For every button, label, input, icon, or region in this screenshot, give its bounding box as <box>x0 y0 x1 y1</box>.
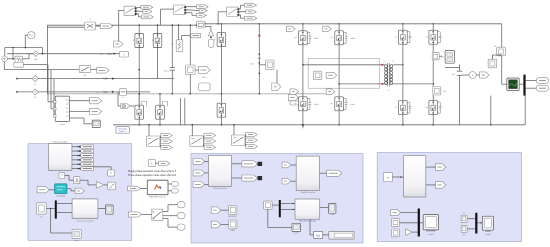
goto tag sSel <box>159 161 170 166</box>
snubber loop Q4 <box>142 101 147 106</box>
wire green to bus <box>519 83 523 85</box>
wire mux out2 <box>69 110 89 112</box>
wire G2 feed <box>218 11 227 13</box>
rounded out mf1 <box>171 182 178 187</box>
goto tag M0a <box>161 133 173 137</box>
wires G1 <box>185 6 196 8</box>
wires G0 <box>137 6 141 9</box>
IGBT leg Q13 <box>399 101 408 115</box>
svg-text:Discrete: Discrete <box>119 128 128 131</box>
subsystem PWM A <box>209 155 232 186</box>
subsystem PWM B <box>296 156 319 190</box>
wire Q6 bottom <box>220 117 222 125</box>
MOSFET Q3 <box>217 33 226 47</box>
wire phase A row <box>7 53 129 55</box>
wire one bus <box>272 204 279 206</box>
wire sel fu <box>309 219 311 235</box>
svg-text:MOSFETs: MOSFETs <box>228 216 237 218</box>
MOSFET Q1 <box>135 34 144 48</box>
wire phase C row <box>16 78 174 80</box>
goto tag lower right <box>288 94 298 100</box>
wire timer t3 <box>72 154 79 156</box>
svg-text:meas: meas <box>60 124 65 126</box>
scope sel out <box>329 204 336 214</box>
scope SC1 <box>92 120 100 127</box>
wire bridge mid left2 <box>338 45 340 97</box>
PLL block teal <box>55 184 68 194</box>
capacitor Cdc2 <box>457 70 463 72</box>
wire m4 link <box>491 55 493 59</box>
wire measR outs <box>426 166 436 168</box>
bus bar right panel 1 <box>418 209 420 237</box>
svg-text:scope2: scope2 <box>485 234 491 236</box>
wire vm1 lower <box>189 74 191 93</box>
from tag mos2 <box>211 221 221 228</box>
breaker B1 <box>79 66 91 73</box>
wire Z1 to I-meas <box>23 58 30 60</box>
block under vm1 <box>199 83 211 91</box>
wire bus sc5 <box>477 222 482 224</box>
block sat <box>108 182 116 190</box>
block meas bottom <box>72 229 81 238</box>
wire G1 feed <box>161 8 174 10</box>
wire m sub <box>392 176 403 178</box>
wire gray mid bus <box>47 93 332 95</box>
svg-text:ModeSelectionLogic: ModeSelectionLogic <box>299 220 316 223</box>
wire rate on <box>80 179 88 181</box>
gate tag Q8 <box>323 26 332 31</box>
goto tag pwmA out1 <box>242 161 257 167</box>
wire breaker to tag <box>91 68 97 70</box>
block rq1 <box>461 215 467 222</box>
rounded out mf2 <box>171 189 178 194</box>
wire tm rate <box>65 174 69 176</box>
wires sw outs <box>163 211 168 213</box>
measurement mux U1 <box>55 96 69 121</box>
svg-text:f(u): f(u) <box>316 233 320 237</box>
wire bus sc4 <box>420 222 423 224</box>
svg-text:g2: g2 <box>294 103 296 105</box>
wire Q5 top <box>159 94 161 105</box>
goto tag M1c <box>204 145 216 149</box>
wire cap2 down tag <box>276 70 278 83</box>
wire ctrl scope <box>98 208 106 210</box>
from tag rp1 <box>391 210 401 216</box>
wire La tag <box>182 35 189 37</box>
wire xfmr right bottom <box>393 83 433 85</box>
wire timer t4 <box>72 159 79 161</box>
constant P <box>37 203 47 214</box>
capacitor Cdc1 <box>170 67 175 69</box>
svg-text:M1: M1 <box>443 91 446 93</box>
svg-text:~v~: ~v~ <box>95 78 100 81</box>
wire rbridge mid2 <box>432 44 434 52</box>
block fu <box>314 231 323 238</box>
MOSFET Q2 <box>153 34 162 48</box>
wire cap2 block <box>259 64 265 66</box>
measure block M1 <box>433 87 441 96</box>
IGBT leg Q9 <box>299 97 308 111</box>
subsystem controller L <box>72 199 98 219</box>
wire rbridge bot2 <box>432 115 434 125</box>
from tag mf in <box>128 186 141 191</box>
gain triangle up <box>208 30 213 36</box>
wire wt pll <box>49 189 54 191</box>
goto tag VabcB1 <box>90 98 102 104</box>
goto tag M0c <box>161 145 173 149</box>
panel measurement scopes <box>377 153 521 242</box>
panel TimerController <box>28 144 132 241</box>
capacitor Cdc mid block <box>266 60 274 70</box>
svg-text:scope1: scope1 <box>428 234 434 236</box>
scope SC4 <box>423 215 438 230</box>
pulse switch group G1 <box>174 5 186 14</box>
svg-text:scope: scope <box>330 214 335 216</box>
current measurement diamond I1 <box>33 51 39 57</box>
svg-text:+: + <box>472 73 474 77</box>
svg-text:s: s <box>123 60 124 62</box>
from tag mos1 <box>211 207 221 214</box>
svg-text:Iabc: Iabc <box>34 59 38 61</box>
block mos1 <box>229 206 237 215</box>
svg-text:src: src <box>40 216 43 218</box>
wire timer t1 <box>72 146 79 148</box>
from tag pwmB in2 <box>282 178 291 184</box>
from tag pwmB in1 <box>282 162 291 168</box>
red mark xfmr <box>382 64 384 66</box>
wire cdc2 top <box>439 55 442 57</box>
wire bus sel <box>281 203 295 205</box>
svg-text:=VC=: =VC= <box>102 90 109 94</box>
wire Q6 top <box>220 94 222 103</box>
goto tag M0b <box>161 139 173 143</box>
demux switch group M1 <box>190 136 204 147</box>
gate tag Q7 <box>286 26 295 31</box>
svg-text:g: g <box>152 40 153 42</box>
goto tag G1b <box>199 9 207 13</box>
wire rbridge top2 <box>432 24 434 30</box>
goto tag M1b <box>204 139 216 143</box>
rounded out sw1 <box>177 202 185 208</box>
wire mos2 <box>221 224 229 226</box>
wire riser to product <box>46 27 48 94</box>
svg-text:=VA=: =VA= <box>106 52 113 56</box>
svg-text:=VB=: =VB= <box>102 77 109 81</box>
current measurement diamond I3 <box>32 89 38 95</box>
svg-text:~v~: ~v~ <box>99 53 104 56</box>
svg-text:5e-07 s.: 5e-07 s. <box>119 131 127 133</box>
from tag pwmA in3 <box>193 182 205 188</box>
wire X2 to triangle <box>205 25 211 27</box>
IGBT leg Q8 <box>335 31 344 45</box>
svg-text:tc: tc <box>463 212 465 215</box>
block rq2 <box>461 225 467 232</box>
bus bar right <box>523 75 525 96</box>
switch block sw1 <box>152 209 163 220</box>
wire sum tag <box>476 74 479 76</box>
IGBT leg Q12 <box>429 30 438 44</box>
pulse switch group G0 <box>124 6 136 15</box>
wire bridge mid left <box>302 45 304 97</box>
block K <box>108 170 115 176</box>
wire cdc2 bot <box>459 75 461 83</box>
goto tag pwmA out2 <box>242 175 257 181</box>
wire timer t5 <box>72 163 79 165</box>
svg-text:Cdc1: Cdc1 <box>163 71 169 73</box>
goto tag G1c <box>196 13 206 17</box>
powergui scope green <box>507 78 519 90</box>
svg-text:g4: g4 <box>330 103 332 105</box>
voltage source V1 <box>2 56 8 62</box>
block rp3 <box>392 229 400 237</box>
panel PWM generators <box>191 154 363 244</box>
wire far right bottom <box>524 96 526 125</box>
bus bar left panel <box>55 200 57 218</box>
wire vm1 riser <box>189 25 191 65</box>
wire rbridge top <box>402 24 404 30</box>
goto tag B1out <box>97 68 110 73</box>
sum block S1 <box>119 51 128 57</box>
svg-text:g: g <box>133 40 134 42</box>
goto tag G0b <box>143 10 152 14</box>
wire bus to product <box>47 26 84 28</box>
wire cap1 lower <box>171 70 173 94</box>
sine wave source <box>28 32 35 39</box>
svg-text:scope: scope <box>74 240 79 242</box>
goto tag M2a <box>246 132 258 136</box>
goto tag G0c <box>141 15 153 19</box>
goto tag Vdc1 <box>199 67 211 74</box>
scope SC2 <box>106 205 114 214</box>
ground arrow below bus <box>302 126 304 129</box>
svg-text:x: x <box>90 18 91 20</box>
wire to sum <box>462 74 469 76</box>
IGBT leg Q10 <box>335 97 344 111</box>
rounded out sw3 <box>177 224 185 230</box>
gain K2 <box>96 182 104 189</box>
IGBT leg Q7 <box>299 31 308 45</box>
wire pwmA outs <box>232 163 242 165</box>
current measurement diamond I2 <box>32 76 38 82</box>
measure block M2 <box>432 53 439 60</box>
wires G2 <box>238 8 240 10</box>
goto tag Vdc <box>272 83 281 91</box>
wire cap2 riser <box>258 24 260 94</box>
rounded tag out1 <box>536 78 548 84</box>
svg-text:+: + <box>123 53 125 57</box>
svg-text:MATLAB Function: MATLAB Function <box>149 195 167 198</box>
svg-text:s2: s2 <box>395 107 397 109</box>
wire pwmA in2 <box>205 172 209 174</box>
wire fu disp <box>323 234 329 236</box>
wire Q3 down <box>220 47 222 94</box>
wire xfmr bottom <box>339 83 384 85</box>
wire mux out1 <box>69 100 89 102</box>
goto tag G2a <box>245 3 257 7</box>
wire xfmr top <box>303 64 384 66</box>
demux switch group M2 <box>232 135 246 146</box>
wires M2 <box>244 135 247 139</box>
wire top bus right <box>205 23 502 25</box>
svg-text:tjm: tjm <box>462 233 465 236</box>
goto tag measR2 <box>436 182 446 189</box>
svg-text:g1: g1 <box>294 37 296 39</box>
goto tag M1a <box>204 133 216 137</box>
wires M1 <box>202 135 205 139</box>
wire timer t2 <box>72 150 79 152</box>
svg-text:Cdc: Cdc <box>452 74 456 76</box>
vertical right of Q5 <box>179 98 181 125</box>
subsystem sel <box>295 199 320 219</box>
wire Q4 bottom <box>138 119 140 125</box>
wire loop left drop <box>4 48 6 56</box>
wire Q2 down <box>157 48 159 79</box>
from tag wt <box>37 187 49 193</box>
IGBT leg Q11 <box>399 30 408 44</box>
constant sSel <box>148 160 155 167</box>
wire drop Q3 <box>220 24 222 33</box>
rounded tag out2 <box>536 85 548 91</box>
demux switch group M0 <box>147 136 161 147</box>
SM block <box>313 71 321 79</box>
wire F1 out <box>130 105 134 107</box>
measure block ht <box>120 89 127 96</box>
display block <box>329 231 354 239</box>
MOSFET Q4 <box>135 105 144 119</box>
inductor branch La <box>176 40 183 52</box>
wire M1 feed <box>191 125 193 136</box>
wire pwmB in2 <box>291 180 296 182</box>
vertical right of Q5 b <box>184 98 186 125</box>
wire right riser bottom <box>490 96 492 125</box>
wire product to tag <box>96 25 101 27</box>
wire La riser <box>178 25 180 40</box>
wire rbridge bot <box>402 115 404 125</box>
wire sine feed <box>25 34 27 36</box>
wire p bus <box>46 208 55 210</box>
wire drop Q2 <box>157 25 159 33</box>
svg-text:M2: M2 <box>441 57 444 59</box>
goto tag M2b <box>246 138 258 142</box>
block rp2 <box>392 219 400 227</box>
wires bus to controller <box>57 203 72 205</box>
wire drop Q1 <box>138 25 140 33</box>
timer out tag T4 <box>79 158 93 162</box>
scope SC5 <box>482 216 493 230</box>
bus bar right panel 2 <box>475 213 477 234</box>
wires bus to tags <box>526 80 537 82</box>
svg-text:Single-phase operation mode wh: Single-phase operation mode when sSel is… <box>128 170 177 173</box>
wire pwmA in1 <box>205 160 209 162</box>
wire bottom DC return bus <box>113 124 525 126</box>
wire timer t6 <box>72 168 79 170</box>
wire sw in <box>142 214 152 216</box>
timer out tag T6 <box>79 167 93 171</box>
tag pll out <box>75 188 84 194</box>
snubber loop Q5 <box>163 101 168 106</box>
svg-text:SinglePhaseGen: SinglePhaseGen <box>300 192 315 194</box>
wire to phase taps <box>23 64 47 66</box>
block M4 <box>488 59 497 68</box>
wire main top DC bus left <box>47 24 196 26</box>
wire pwmB in1 <box>291 164 296 166</box>
wire gain sat <box>104 184 108 186</box>
svg-text:~v~: ~v~ <box>95 91 100 94</box>
wire loop right drop <box>42 48 44 54</box>
wire source bottom <box>3 62 5 70</box>
wire neutral row <box>16 91 150 93</box>
block M3 <box>497 47 506 56</box>
wire mux out3 <box>69 117 84 119</box>
svg-text:IGBTs: IGBTs <box>230 230 235 232</box>
wire mf in <box>141 188 148 190</box>
wire tap A <box>47 65 49 102</box>
small source block <box>14 62 24 67</box>
wire bus down block <box>50 209 52 234</box>
wire Q1 down <box>138 48 140 106</box>
wires rp to bus <box>401 212 418 214</box>
goto tag M2c <box>246 144 258 148</box>
wire tap C <box>53 79 55 116</box>
measurement boundary box <box>308 58 379 88</box>
powergui block <box>116 127 130 134</box>
timer out tag T2 <box>79 149 93 153</box>
subsystem TimerController <box>49 144 72 171</box>
svg-text:ThreePhaseGen: ThreePhaseGen <box>213 188 228 190</box>
arrow into row D <box>16 91 19 93</box>
wire ssel <box>155 162 158 164</box>
wire pll out <box>67 188 71 190</box>
goto tag SM <box>326 72 337 78</box>
wires M0 <box>159 136 162 140</box>
from tag pwmA in2 <box>193 170 205 176</box>
goto tag G1a <box>196 5 208 9</box>
wire G0 feed <box>119 9 124 11</box>
goto tag G2c <box>245 16 257 20</box>
constant one <box>264 201 273 209</box>
rounded out sw2 <box>177 213 185 219</box>
goto tag pwmB out <box>327 170 342 176</box>
timer out tag T3 <box>79 154 93 158</box>
scope block rb <box>445 51 454 64</box>
wire cap1 riser <box>171 25 173 67</box>
wire mf outs <box>168 183 171 185</box>
wire K up <box>110 167 112 170</box>
svg-text:Three-phase operation mode whe: Three-phase operation mode when sSel is … <box>128 174 176 177</box>
from tag sw in <box>128 212 141 217</box>
from tag F1 <box>121 104 130 109</box>
goto tag G2b <box>246 10 257 14</box>
wire mos1 <box>221 209 229 211</box>
wire Q5 bottom <box>159 119 161 125</box>
wire tap B <box>50 70 52 109</box>
gain rp3 <box>406 229 412 236</box>
wire sel out <box>320 207 329 209</box>
bus bar mid panel <box>279 200 281 217</box>
goto tag G0a <box>141 5 153 9</box>
svg-text:converter controller: converter controller <box>76 219 93 222</box>
from block m <box>383 173 392 182</box>
wire rbridge mid <box>402 44 404 100</box>
svg-text:s4: s4 <box>426 107 428 109</box>
cap2 red mark <box>258 35 260 37</box>
wire phase B row <box>6 69 79 71</box>
sum circle S3 <box>469 72 476 79</box>
cap2 ticks <box>259 54 261 56</box>
wire loop tap <box>12 48 14 59</box>
pulse switch group G2 <box>227 7 239 16</box>
goto tag IabcB1 <box>90 108 102 114</box>
